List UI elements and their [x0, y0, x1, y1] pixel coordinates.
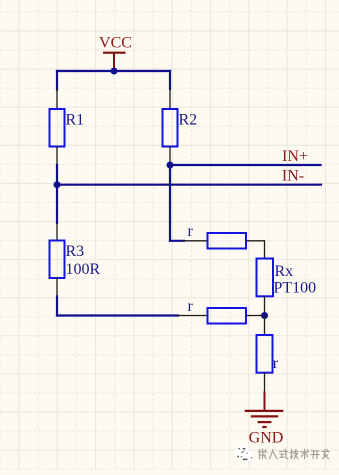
wire R2 node down [169, 165, 171, 241]
wire VCC rail [57, 70, 170, 72]
junction at IN- tap [54, 181, 61, 188]
resistor R3 [50, 223, 85, 298]
wire top bridge [170, 240, 184, 242]
resistor Rx [257, 259, 294, 317]
svg-text:GND: GND [249, 430, 284, 447]
resistor R1 [50, 89, 85, 167]
wire to R2 [169, 71, 171, 89]
svg-text:100R: 100R [66, 261, 101, 278]
svg-text:R3: R3 [66, 243, 85, 260]
junction below Rx [261, 312, 268, 319]
ground GND [245, 391, 284, 446]
svg-text:IN+: IN+ [282, 148, 308, 165]
svg-text:PT100: PT100 [274, 280, 317, 297]
svg-text:r: r [273, 355, 279, 372]
resistor R2 [163, 89, 198, 166]
wire below R3 [56, 297, 58, 316]
power symbol VCC [99, 35, 132, 71]
wire bottom bridge [57, 314, 178, 316]
resistor r (bottom bridge) [178, 298, 265, 324]
watermark text [259, 449, 330, 459]
wire IN- [57, 184, 321, 186]
svg-text:Rx: Rx [275, 263, 294, 280]
wire IN+ [170, 164, 321, 166]
watermark logo [235, 445, 252, 461]
svg-text:IN-: IN- [282, 168, 304, 185]
junction below R2 [167, 162, 174, 169]
svg-text:R1: R1 [66, 112, 85, 129]
resistor r (top bridge) [183, 223, 265, 249]
wire/pin corner into Rx [264, 240, 266, 259]
svg-text:r: r [188, 298, 194, 315]
svg-text:VCC: VCC [99, 35, 132, 52]
junction at VCC [111, 68, 118, 75]
resistor r (to ground) [257, 316, 279, 393]
wire to R1 [56, 71, 58, 90]
svg-text:r: r [188, 223, 194, 240]
wire R1 to R3 [56, 165, 58, 223]
svg-text:R2: R2 [179, 112, 198, 129]
